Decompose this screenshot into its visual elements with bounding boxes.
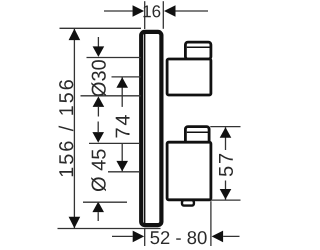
dim 52-80: right leader — [223, 235, 239, 237]
dim 16: left extension line — [144, 1, 146, 29]
bottom cartridge body — [167, 142, 211, 200]
bottom cartridge cap — [185, 127, 209, 144]
dim 16: left leader — [104, 10, 133, 12]
dim 156/156: dimension line — [73, 29, 75, 229]
dim O45: text — [91, 150, 106, 192]
dim 74: top arrow — [116, 77, 128, 88]
dim 52-80: left extension line — [144, 228, 146, 246]
top cap seam — [187, 46, 211, 48]
dim 74: bottom arrow — [116, 161, 128, 172]
wall plate (side view) — [141, 32, 161, 225]
dim 16: right extension line — [162, 1, 164, 29]
dim O30: bottom arrow (up) — [93, 96, 105, 107]
plate front inner line — [144, 31, 146, 226]
dim 156/156: top extension line — [60, 27, 142, 29]
bottom notch tab — [182, 200, 194, 205]
dim 156/156: bottom extension line — [58, 228, 161, 230]
dim O30: top extension line — [87, 57, 142, 59]
dim 57: text — [219, 154, 233, 176]
dim 52-80: text — [150, 231, 206, 244]
dim 74: upper line segment — [121, 77, 123, 107]
dim 57: top extension line — [210, 126, 240, 128]
bottom cap seam — [187, 131, 209, 133]
dim O30: bottom extension line — [81, 95, 142, 97]
dim O45: bottom arrow (up) — [92, 202, 104, 213]
dim 57: lower line segment — [225, 181, 227, 200]
dim 57: bottom arrow — [220, 189, 232, 200]
dim O45: upper stub — [97, 122, 99, 133]
dim O30: upper stub — [97, 37, 99, 47]
dim O45: bottom extension line — [83, 201, 127, 203]
dim 16: right arrow — [164, 5, 176, 17]
dim O45: top arrow (down) — [92, 132, 104, 143]
dim 156/156: text — [59, 80, 74, 176]
dim 52-80: left leader — [112, 235, 133, 237]
dim 16: text — [143, 5, 160, 17]
dim 156/156: bottom arrow — [69, 217, 81, 229]
dim 156/156: top arrow — [69, 29, 81, 40]
dim 57: bottom extension line — [211, 199, 241, 201]
dim 52-80: right arrow — [212, 231, 224, 243]
dim O30: text — [91, 60, 106, 96]
dim 52-80: left arrow — [133, 231, 145, 243]
dim 74: lower line segment — [121, 144, 123, 171]
top cartridge cap — [185, 42, 211, 59]
dim 57: top arrow — [220, 127, 232, 138]
dim 74: text — [116, 115, 130, 137]
dim O30: top arrow (down) — [93, 46, 105, 57]
dim 74: top extension line — [112, 76, 142, 78]
dim 16: left arrow — [133, 5, 145, 17]
top cartridge body — [167, 59, 211, 95]
dim O45: lower stub — [97, 212, 99, 221]
dim 74: bottom extension line — [108, 171, 140, 173]
dim 16: right leader — [175, 10, 208, 12]
dim O30: lower stub — [97, 107, 99, 117]
dim 57: upper line segment — [225, 127, 227, 150]
dim O45: top extension line — [89, 142, 140, 144]
dim 52-80: right extension line — [210, 201, 212, 246]
